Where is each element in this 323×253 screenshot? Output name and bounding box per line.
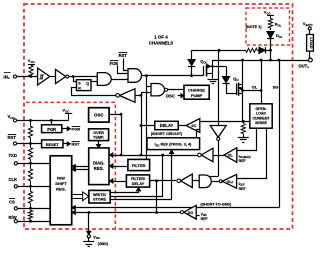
write/store box U15: [89, 190, 110, 203]
wire NAND input stub: [147, 86, 152, 88]
wire RW line: [17, 221, 50, 223]
ground VSS: [83, 241, 94, 243]
wire diag to reg A: [72, 166, 89, 168]
wire: [50, 76, 56, 78]
wire delay wiring: [141, 125, 155, 127]
svg-text:RST: RST: [72, 142, 81, 147]
svg-text:TXD: TXD: [9, 153, 17, 158]
transistor Q_OL (pmos pull-up): [203, 66, 205, 76]
terminal VBATT: [308, 27, 311, 30]
terminal TXD: [14, 162, 17, 165]
wire OT to diag: [98, 141, 100, 145]
wire olcs to OLF comp: [237, 129, 267, 179]
wire sense node: [200, 121, 250, 123]
terminal OUTx: [309, 58, 313, 62]
charge pump U7: [184, 85, 209, 99]
wire VSS to gnd: [88, 238, 90, 242]
svg-text:WRITE/: WRITE/: [93, 193, 107, 197]
wire VSS drop: [88, 213, 90, 232]
svg-text:R/W: R/W: [9, 215, 17, 220]
comparator OLF: [222, 174, 236, 188]
svg-text:(NOTE 1): (NOTE 1): [246, 25, 263, 29]
wire NAND lower input: [141, 92, 151, 94]
overtemp box U13: [89, 129, 109, 141]
resistor RST pull-up: [30, 120, 32, 126]
terminal VSS: [87, 235, 90, 238]
svg-text:FILTER: FILTER: [132, 163, 146, 168]
SPI logic section boundary (red dashed): [26, 102, 115, 228]
diag register U14: [89, 148, 109, 185]
svg-text:REF: REF: [239, 159, 247, 163]
inverter U22: [181, 174, 193, 188]
transistor Q_O (output nmos): [236, 84, 238, 96]
wire D2 to QO gate: [226, 93, 236, 95]
wire fault node vertical: [141, 93, 143, 155]
diode D2 (gate clamp): [226, 66, 228, 76]
wire U2 out to U4: [111, 79, 128, 81]
svg-text:OSC: OSC: [94, 113, 104, 118]
wire VCC line: [17, 120, 69, 122]
wire CLK line: [17, 186, 50, 188]
svg-text:LOAD: LOAD: [256, 112, 266, 116]
wire driver out: [218, 140, 220, 176]
terminal INx: [13, 75, 16, 78]
wire VBATT to load: [309, 30, 311, 35]
wire latch S input: [74, 77, 77, 82]
inverter U1b: [56, 70, 66, 84]
ground (below QOL): [208, 79, 219, 81]
wire driver tap: [218, 50, 220, 125]
diode D_OL: [267, 32, 274, 39]
svg-text:(SHORT CIRCUIT): (SHORT CIRCUIT): [151, 132, 183, 136]
wire QO drain/source: [242, 60, 244, 121]
wire fd to diag: [112, 181, 126, 183]
resistor R_sense: [243, 121, 245, 123]
shift register U18: [50, 156, 71, 225]
svg-text:R/W: R/W: [57, 175, 65, 180]
wire U22 to gate: [192, 180, 199, 182]
svg-text:1 OF 4: 1 OF 4: [154, 35, 168, 40]
wire SC ref: [197, 130, 200, 138]
svg-text:REF: REF: [239, 187, 247, 191]
wire ws to fd: [111, 192, 139, 193]
svg-text:SENSE: SENSE: [255, 121, 268, 125]
svg-text:OVER: OVER: [93, 131, 104, 135]
svg-text:(SHORT-TO-GND): (SHORT-TO-GND): [200, 202, 232, 206]
wire RST down: [124, 59, 129, 71]
wire RESET out arrow: [63, 143, 67, 145]
svg-text:Q: Q: [86, 81, 89, 85]
wire olcs to OL comp: [237, 129, 257, 151]
svg-text:LOAD: LOAD: [309, 37, 314, 48]
wire POR out arrow: [62, 128, 68, 130]
svg-text:R: R: [78, 87, 81, 91]
wire ws to isc ref: [111, 154, 172, 200]
resistor R_OL: [270, 17, 272, 19]
comparator OL(MAX): [224, 148, 237, 163]
svg-text:OPEN-: OPEN-: [255, 107, 267, 111]
wire SG ref stub: [196, 215, 199, 217]
svg-text:TEMP.: TEMP.: [93, 136, 104, 140]
svg-text:REG.: REG.: [56, 187, 66, 192]
wire POR feed: [51, 120, 53, 124]
wire sg bus: [74, 207, 279, 209]
wire OL chain: [141, 155, 198, 157]
node INx input line: [17, 76, 38, 78]
terminal RW: [14, 220, 17, 223]
svg-text:POR: POR: [72, 127, 81, 132]
IC outer boundary (red dashed): [24, 4, 293, 229]
wire latch-reset line: [71, 95, 116, 97]
svg-text:OL: OL: [228, 154, 234, 158]
delay box U10: [155, 121, 178, 129]
resistor CS pull: [30, 186, 32, 191]
wire SG out: [74, 212, 181, 214]
wire NAND to charge pump: [168, 89, 184, 91]
resistor TXD pull: [30, 144, 32, 148]
wire fault join: [156, 181, 158, 213]
zener D3: [257, 50, 259, 52]
inverter U6 (latch reset): [120, 89, 136, 103]
svg-text:PUMP: PUMP: [191, 93, 203, 98]
isc ref box U11: [147, 138, 200, 150]
driver triangle U9: [210, 126, 226, 138]
wire gate to OLF: [211, 181, 219, 183]
wire RST line: [17, 143, 42, 145]
wire load to out: [309, 51, 311, 58]
inverter U21: [201, 148, 213, 162]
reset box U17: [42, 140, 63, 148]
wire latch Q to AND U2: [91, 81, 97, 83]
note 1 box (red dashed): [246, 8, 290, 45]
wire latch R input: [72, 88, 77, 96]
power VCC bar (note1): [267, 15, 274, 17]
wire branch down to NAND/filter: [146, 76, 148, 160]
resistor CLK pull: [30, 163, 32, 169]
schmitt buffer U1a: [38, 68, 50, 85]
power VCC bar (input pullup): [28, 64, 35, 66]
wire diag to reg B: [72, 169, 89, 171]
resistor input pull-up: [29, 65, 33, 76]
svg-text:CHARGE: CHARGE: [188, 88, 205, 93]
svg-text:STORE: STORE: [93, 198, 106, 202]
svg-text:OSC: OSC: [166, 94, 175, 99]
and-gate U2: [97, 73, 111, 86]
terminal RST: [13, 142, 16, 145]
svg-text:REG.: REG.: [94, 166, 104, 171]
comparator SG: [184, 205, 196, 219]
wire U21 to OL comp: [213, 155, 224, 157]
wire gate-boost rail: [192, 50, 246, 52]
svg-text:SHIFT: SHIFT: [55, 181, 67, 186]
bus reg to write/store: [72, 194, 83, 196]
svg-text:RST: RST: [119, 53, 128, 58]
resistor gate series: [246, 48, 258, 52]
svg-text:RST: RST: [8, 135, 17, 140]
wire main gate line: [142, 75, 204, 77]
svg-text:CLK: CLK: [9, 177, 18, 182]
osc box U12: [89, 108, 110, 122]
and-gate U4: [128, 69, 142, 83]
diode D1: [191, 50, 193, 60]
filter box U19: [128, 159, 150, 170]
svg-text:SC: SC: [191, 124, 196, 128]
open-load current sense U8: [250, 104, 272, 128]
wire filter to diag: [112, 166, 128, 168]
svg-text:OL: OL: [252, 84, 258, 89]
wire sc-fault to diag: [112, 155, 141, 157]
svg-text:POR: POR: [47, 127, 56, 132]
wire ws to ol-chain: [111, 156, 163, 197]
svg-text:DELAY: DELAY: [160, 123, 174, 128]
svg-text:FILTER/: FILTER/: [131, 177, 146, 181]
nand-gate U5 (charge pump enable): [151, 84, 165, 96]
svg-text:DIAG.: DIAG.: [93, 161, 104, 166]
svg-text:OLF: OLF: [227, 180, 234, 185]
wire note1 drop: [270, 45, 272, 60]
latch U3 (S-R): [77, 80, 92, 91]
svg-text:RESET: RESET: [46, 142, 60, 147]
resistor RW pull: [30, 208, 32, 210]
svg-text:CHANNELS: CHANNELS: [149, 40, 173, 45]
svg-text:REF: REF: [201, 217, 209, 221]
wire fd to inverter: [150, 180, 176, 182]
wire output node: [213, 60, 311, 62]
wire osc out: [109, 114, 121, 116]
terminal CS: [14, 207, 17, 210]
svg-text:CURRENT: CURRENT: [252, 116, 270, 120]
comparator SC: [186, 119, 200, 133]
por box U16: [42, 125, 62, 133]
wire OL sense line: [261, 60, 263, 104]
svg-text:SG: SG: [188, 211, 193, 215]
svg-text:CS: CS: [9, 199, 15, 204]
filter/delay box U20: [126, 175, 149, 187]
wire to AND U2 and latch: [69, 76, 98, 78]
ground (sense): [238, 137, 249, 139]
svg-text:FOE: FOE: [110, 61, 119, 66]
terminal VCC: [13, 119, 16, 122]
terminal CLK: [14, 185, 17, 188]
svg-text:SG: SG: [273, 84, 279, 89]
wire QO to OL node: [243, 90, 262, 92]
svg-text:DELAY: DELAY: [132, 182, 145, 186]
wire QO gate feed: [213, 66, 227, 68]
wire SG sense line: [279, 60, 281, 208]
svg-text:(GND): (GND): [98, 242, 108, 246]
wire TXD line: [17, 163, 50, 165]
wire FOE down: [118, 66, 129, 74]
load RL: [307, 35, 314, 52]
wire U6 input: [135, 95, 141, 97]
wire CS line: [17, 208, 50, 210]
and-gate U23: [199, 175, 211, 188]
